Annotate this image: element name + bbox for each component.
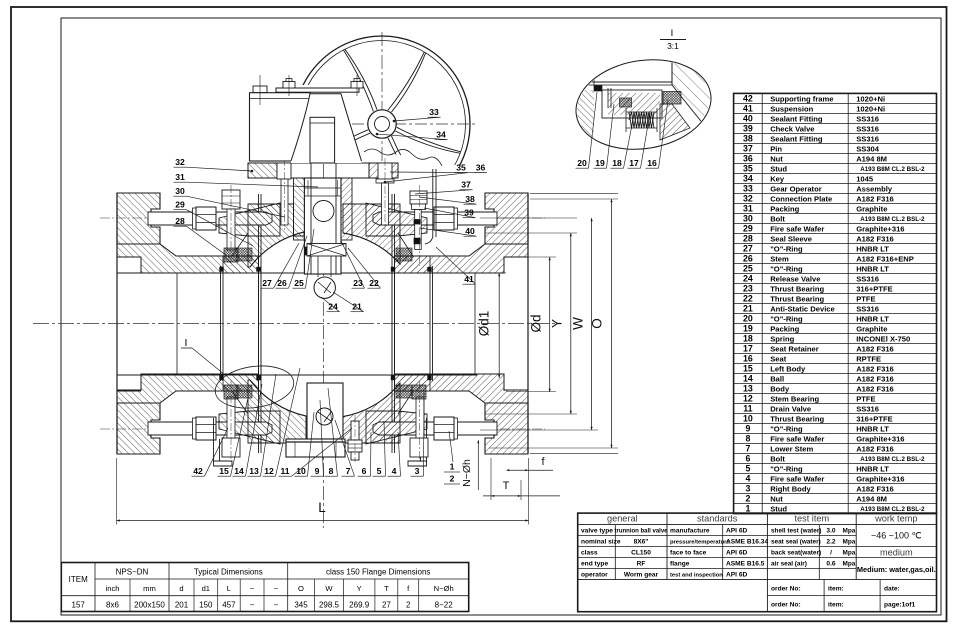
svg-text:36: 36	[743, 154, 753, 164]
svg-text:ITEM: ITEM	[69, 575, 88, 584]
svg-text:16: 16	[743, 354, 753, 364]
svg-text:26: 26	[743, 254, 753, 264]
svg-text:Mpa: Mpa	[843, 538, 856, 545]
svg-text:17: 17	[743, 344, 753, 354]
left hub transition top	[232, 233, 248, 256]
right seat retainer top section	[395, 256, 431, 273]
left flange top section	[117, 193, 160, 244]
detail left hatch	[568, 90, 594, 145]
svg-text:SS316: SS316	[856, 114, 879, 123]
svg-text:Y: Y	[357, 584, 362, 593]
right seat retainer bottom section	[395, 375, 431, 391]
svg-text:30: 30	[743, 214, 753, 224]
svg-text:HNBR LT: HNBR LT	[856, 264, 889, 273]
handwheel spoke lower-right	[391, 136, 425, 195]
svg-text:−: −	[274, 584, 279, 593]
svg-text:flange: flange	[670, 560, 690, 567]
svg-text:ASME B16.34: ASME B16.34	[726, 538, 768, 545]
svg-text:3.0: 3.0	[826, 527, 835, 534]
svg-text:13: 13	[249, 466, 259, 476]
svg-text:general: general	[607, 514, 638, 524]
svg-text:1: 1	[745, 504, 750, 514]
left flange stud washer top	[193, 208, 197, 229]
svg-text:201: 201	[175, 600, 189, 609]
svg-text:inch: inch	[106, 584, 120, 593]
svg-text:298.5: 298.5	[319, 600, 340, 609]
svg-text:I: I	[671, 28, 674, 39]
svg-text:15: 15	[219, 466, 229, 476]
horizontal centerline	[33, 323, 556, 325]
right flange stud shank top	[373, 212, 497, 225]
svg-text:Release Valve: Release Valve	[770, 274, 820, 283]
svg-text:15: 15	[743, 364, 753, 374]
svg-text:Anti-Static Device: Anti-Static Device	[770, 304, 835, 313]
svg-text:test item: test item	[794, 514, 829, 524]
handwheel rim	[294, 36, 470, 212]
dimension O line	[611, 199, 613, 448]
svg-text:Packing: Packing	[770, 204, 799, 213]
svg-text:Right Body: Right Body	[770, 485, 811, 494]
svg-text:40: 40	[743, 114, 753, 124]
svg-text:10: 10	[743, 414, 753, 424]
bolt left bottom shank	[227, 397, 235, 438]
svg-text:27: 27	[743, 244, 753, 254]
left flange stud washer bottom	[193, 418, 197, 439]
svg-text:test and inspection: test and inspection	[670, 572, 723, 578]
svg-text:Stem: Stem	[770, 254, 789, 263]
svg-text:33: 33	[429, 107, 439, 117]
svg-text:6: 6	[745, 454, 750, 464]
svg-text:Medium: water,gas,oil.: Medium: water,gas,oil.	[857, 565, 936, 574]
svg-text:Gear Operator: Gear Operator	[770, 184, 822, 193]
detail o-ring crosshatch (19)	[620, 98, 632, 107]
svg-text:25: 25	[743, 264, 753, 274]
bore top line	[117, 272, 477, 274]
svg-text:42: 42	[193, 466, 203, 476]
svg-text:20: 20	[743, 314, 753, 324]
svg-text:26: 26	[277, 278, 287, 288]
svg-text:316+PTFE: 316+PTFE	[856, 284, 893, 293]
left weld line	[176, 273, 178, 375]
left counterbore lines	[117, 256, 141, 258]
svg-text:Key: Key	[770, 174, 785, 183]
svg-text:SS304: SS304	[856, 144, 880, 153]
svg-text:38: 38	[743, 134, 753, 144]
svg-text:0.6: 0.6	[826, 560, 835, 567]
left body bonnet flange wedge	[219, 203, 280, 236]
left flange stud nut top	[196, 207, 216, 230]
svg-text:Bolt: Bolt	[770, 214, 785, 223]
svg-text:3:1: 3:1	[667, 41, 679, 51]
svg-text:Worm gear: Worm gear	[624, 571, 659, 578]
svg-text:pressure/temperature: pressure/temperature	[670, 539, 730, 545]
svg-text:A194 8M: A194 8M	[856, 495, 887, 504]
right body neck top section	[395, 244, 529, 273]
svg-text:Suspension: Suspension	[770, 104, 813, 113]
svg-text:−: −	[250, 584, 255, 593]
svg-text:269.9: 269.9	[349, 600, 370, 609]
svg-text:10: 10	[296, 466, 306, 476]
lower trunnion block	[307, 383, 343, 439]
bolt centerline	[419, 381, 421, 462]
ball bottom-right arc	[341, 383, 400, 417]
svg-text:API 6D: API 6D	[726, 549, 747, 556]
release valve circle (21)	[314, 277, 335, 298]
svg-text:L: L	[318, 500, 326, 515]
svg-text:157: 157	[72, 600, 86, 609]
svg-text:29: 29	[175, 200, 185, 210]
svg-text:shell test (water): shell test (water)	[771, 527, 821, 534]
svg-text:HNBR LT: HNBR LT	[856, 465, 889, 474]
svg-text:Graphite+316: Graphite+316	[856, 475, 904, 484]
svg-text:Fire safe Wafer: Fire safe Wafer	[770, 475, 824, 484]
seat face seal left outer top	[220, 267, 224, 272]
svg-text:14: 14	[234, 466, 244, 476]
svg-text:Sealant Fitting: Sealant Fitting	[770, 114, 823, 123]
svg-text:SS316: SS316	[856, 274, 879, 283]
svg-text:35: 35	[743, 164, 753, 174]
right flange bolt hole centerline top	[388, 217, 545, 219]
svg-text:back seat(water): back seat(water)	[771, 549, 821, 556]
stem thrust bearing right (22)	[334, 247, 341, 255]
svg-text:Mpa: Mpa	[843, 549, 856, 556]
connection plate left section	[248, 163, 277, 178]
svg-text:25: 25	[294, 278, 304, 288]
dimension Phid line	[549, 257, 551, 392]
svg-text:42: 42	[743, 94, 753, 104]
spec table frame	[578, 513, 937, 612]
handwheel spoke upper-left	[343, 50, 373, 112]
svg-text:O: O	[298, 584, 304, 593]
svg-text:face to face: face to face	[670, 549, 707, 556]
right seat top seal	[396, 248, 412, 261]
svg-text:Ød1: Ød1	[477, 311, 492, 337]
svg-text:PTFE: PTFE	[856, 394, 875, 403]
svg-text:standards: standards	[697, 514, 738, 524]
left seat retainer top section	[223, 256, 259, 273]
svg-text:"O"-Ring: "O"-Ring	[770, 425, 803, 434]
svg-text:Drain Valve: Drain Valve	[770, 405, 811, 414]
BOM table frame	[734, 93, 937, 513]
right seal ring lower	[414, 238, 420, 244]
svg-text:HNBR LT: HNBR LT	[856, 425, 889, 434]
svg-text:trunnion ball valve: trunnion ball valve	[614, 528, 668, 534]
left body neck bottom section	[117, 374, 259, 403]
svg-text:200x150: 200x150	[134, 600, 165, 609]
svg-text:Stud: Stud	[770, 505, 787, 514]
bolt centerline	[419, 185, 421, 266]
svg-text:4: 4	[392, 466, 397, 476]
svg-text:29: 29	[743, 224, 753, 234]
right seat bottom seal	[396, 385, 412, 398]
svg-text:order No:: order No:	[771, 585, 801, 592]
svg-text:date:: date:	[884, 585, 900, 592]
svg-text:316+PTFE: 316+PTFE	[856, 415, 893, 424]
svg-text:d: d	[179, 584, 183, 593]
svg-text:Left Body: Left Body	[770, 364, 806, 373]
svg-text:1020+Ni: 1020+Ni	[856, 104, 885, 113]
svg-text:Connection Plate: Connection Plate	[770, 194, 832, 203]
stem packing lines	[304, 187, 341, 189]
connection plate right section	[369, 163, 398, 178]
bolt right head	[410, 191, 427, 204]
left seat bottom seal	[236, 385, 252, 398]
svg-text:Thrust Bearing: Thrust Bearing	[770, 294, 824, 303]
seat face seal right inner bottom	[391, 376, 395, 381]
detail seat block	[602, 90, 662, 118]
dimension T	[490, 458, 492, 500]
svg-text:−: −	[250, 600, 255, 609]
left seat retainer bottom section	[223, 375, 259, 391]
center body upper-right section	[343, 204, 400, 264]
release valve body box (24)	[307, 244, 346, 257]
svg-text:13: 13	[743, 384, 753, 394]
svg-text:37: 37	[743, 144, 753, 154]
svg-text:19: 19	[595, 158, 605, 168]
svg-text:A182 F316+ENP: A182 F316+ENP	[856, 254, 914, 263]
stem thrust bearing left (23)	[304, 247, 311, 255]
svg-text:8−22: 8−22	[435, 600, 454, 609]
left flange face line	[116, 193, 118, 454]
gear operator top plate	[276, 88, 359, 92]
left flange bottom section	[117, 403, 160, 454]
detail anti-static square (20)	[594, 86, 602, 92]
svg-text:API 6D: API 6D	[726, 571, 747, 578]
svg-text:order No:: order No:	[771, 602, 801, 609]
stem block outline	[304, 178, 341, 274]
svg-text:T: T	[384, 584, 389, 593]
svg-text:A193 B8M CL.2 BSL-2: A193 B8M CL.2 BSL-2	[860, 456, 925, 463]
right flange bottom section	[485, 403, 528, 454]
left seat inner edge	[258, 266, 260, 381]
seat face seal left inner top	[257, 267, 261, 272]
svg-text:A193 B8M CL.2 BSL-2: A193 B8M CL.2 BSL-2	[860, 166, 925, 173]
svg-text:19: 19	[743, 324, 753, 334]
extension lines right	[506, 256, 556, 258]
bolt right washer	[412, 204, 426, 210]
svg-text:Assembly: Assembly	[856, 184, 893, 193]
svg-text:L: L	[227, 584, 231, 593]
svg-text:7: 7	[745, 444, 750, 454]
svg-text:Pin: Pin	[770, 144, 782, 153]
svg-text:"O"-Ring: "O"-Ring	[770, 465, 803, 474]
svg-text:mm: mm	[143, 584, 156, 593]
svg-text:−: −	[274, 600, 279, 609]
svg-text:457: 457	[222, 600, 236, 609]
svg-text:A182 F316: A182 F316	[856, 374, 894, 383]
svg-text:Ød: Ød	[529, 314, 544, 332]
right flange face line	[527, 193, 529, 454]
svg-text:Packing: Packing	[770, 324, 799, 333]
ball bottom-left arc	[250, 380, 306, 416]
left body lower flange wedge	[219, 411, 280, 444]
handwheel break line	[364, 149, 442, 166]
svg-text:A182 F316: A182 F316	[856, 485, 894, 494]
right body joint line pair	[391, 194, 393, 453]
center body lower-left section	[248, 380, 306, 443]
svg-text:31: 31	[175, 172, 185, 182]
svg-text:6: 6	[362, 466, 367, 476]
svg-text:Graphite+316: Graphite+316	[856, 435, 904, 444]
detail seat seal crosshatch	[663, 92, 681, 105]
ITEM table frame	[61, 563, 468, 612]
svg-text:8X6": 8X6"	[634, 538, 649, 545]
svg-text:Stud: Stud	[770, 164, 787, 173]
svg-text:1: 1	[450, 462, 455, 472]
svg-text:22: 22	[369, 278, 379, 288]
svg-text:Seat: Seat	[770, 354, 787, 363]
stem top column	[310, 117, 335, 163]
svg-text:ASME B16.5: ASME B16.5	[726, 560, 765, 567]
svg-text:Typical Dimensions: Typical Dimensions	[194, 568, 263, 577]
svg-text:9: 9	[315, 466, 320, 476]
svg-text:22: 22	[743, 294, 753, 304]
plate corner bolt left	[253, 86, 267, 93]
right flange stud washer bottom	[454, 418, 458, 439]
bolt 30 left shank	[227, 209, 235, 250]
bolt centerline	[354, 415, 356, 462]
right body lower flange wedge	[366, 411, 427, 444]
right seat outer edge	[429, 266, 431, 381]
gland bolt left head	[277, 163, 291, 179]
svg-text:A193 B8M CL.2 BSL-2: A193 B8M CL.2 BSL-2	[860, 506, 925, 513]
right flange stud nut top	[434, 207, 454, 230]
gland bolt right head	[378, 163, 392, 179]
bore bottom line	[117, 374, 477, 376]
right hub transition bottom	[398, 391, 413, 414]
lower stem pin circle	[316, 408, 333, 425]
left flange bolt hole centerline bottom	[100, 428, 258, 430]
svg-text:−46 ~100 ℃: −46 ~100 ℃	[871, 531, 922, 541]
svg-text:Fire safe Wafer: Fire safe Wafer	[770, 435, 824, 444]
bonnet wall left	[294, 178, 305, 240]
svg-text:/: /	[830, 549, 832, 556]
svg-text:2: 2	[406, 600, 411, 609]
svg-text:end type: end type	[581, 560, 608, 567]
right seat inner edge	[391, 266, 393, 381]
bolt 30 left head	[222, 190, 240, 209]
svg-text:12: 12	[264, 466, 274, 476]
gear housing box	[250, 93, 311, 161]
svg-text:manufacture: manufacture	[670, 527, 710, 534]
ball top-left arc	[250, 232, 304, 267]
detail body corner hatch	[672, 60, 712, 135]
right flange bolt hole centerline bottom	[388, 428, 545, 430]
svg-text:A182 F316: A182 F316	[856, 344, 894, 353]
detail bore lines	[576, 81, 672, 83]
svg-text:HNBR LT: HNBR LT	[856, 244, 889, 253]
svg-text:API 6D: API 6D	[726, 527, 747, 534]
svg-text:W: W	[325, 584, 333, 593]
dimension L	[116, 458, 118, 525]
handwheel hub horizontal centerline	[352, 123, 478, 125]
svg-text:work temp: work temp	[874, 514, 917, 524]
svg-text:RPTFE: RPTFE	[856, 354, 881, 363]
svg-text:31: 31	[743, 204, 753, 214]
vertical stem centerline	[323, 95, 325, 528]
svg-text:345: 345	[294, 600, 308, 609]
svg-text:Body: Body	[770, 384, 790, 393]
dimension N-Oh	[477, 440, 479, 490]
dimension Phid1 line	[498, 273, 500, 378]
svg-text:"O"-Ring: "O"-Ring	[770, 244, 803, 253]
bolt right bottom shank	[416, 397, 424, 438]
bolt centerline	[230, 185, 232, 266]
svg-text:RF: RF	[637, 560, 646, 567]
right flange stud nut bottom	[434, 417, 454, 440]
center body lower-right section	[341, 383, 400, 443]
svg-text:A182 F316: A182 F316	[856, 445, 894, 454]
svg-text:air seal (air): air seal (air)	[771, 560, 807, 567]
svg-text:W: W	[571, 317, 586, 330]
svg-text:T: T	[503, 480, 510, 492]
bolt right shank	[415, 210, 422, 250]
left body joint line pair	[258, 194, 260, 453]
seat face seal right outer top	[428, 267, 432, 272]
svg-text:class: class	[581, 549, 598, 556]
svg-text:NPS−DN: NPS−DN	[116, 568, 149, 577]
handwheel vertical centerline	[381, 32, 383, 218]
svg-text:18: 18	[612, 158, 622, 168]
svg-text:11: 11	[280, 466, 289, 476]
svg-text:Sealant Fitting: Sealant Fitting	[770, 134, 823, 143]
svg-text:23: 23	[743, 284, 753, 294]
svg-text:1020+Ni: 1020+Ni	[856, 94, 885, 103]
svg-text:Lower Stem: Lower Stem	[770, 445, 813, 454]
svg-text:Stem Bearing: Stem Bearing	[770, 394, 819, 403]
detail bubble ellipse	[569, 50, 717, 158]
svg-text:1045: 1045	[856, 174, 874, 183]
svg-text:5: 5	[377, 466, 382, 476]
svg-text:O: O	[590, 318, 605, 329]
svg-text:16: 16	[647, 158, 657, 168]
gland bolt right shank	[382, 183, 389, 225]
left flange stud shank bottom	[148, 422, 272, 435]
svg-text:N−Øh: N−Øh	[434, 584, 454, 593]
left seat top seal	[236, 248, 252, 261]
handwheel spoke lower-left	[310, 133, 370, 166]
bolt left bottom head	[222, 438, 240, 457]
svg-text:Graphite: Graphite	[856, 324, 887, 333]
svg-text:Thrust Bearing: Thrust Bearing	[770, 284, 824, 293]
svg-text:SS316: SS316	[856, 134, 879, 143]
svg-text:17: 17	[629, 158, 639, 168]
svg-text:9: 9	[745, 424, 750, 434]
svg-text:A182 F316: A182 F316	[856, 194, 894, 203]
center body upper-left section	[248, 204, 304, 267]
suspension rod (41)	[432, 169, 434, 237]
bonnet wall right	[341, 178, 352, 240]
svg-text:27: 27	[262, 278, 272, 288]
svg-text:8x6: 8x6	[106, 600, 119, 609]
svg-text:Ball: Ball	[770, 374, 784, 383]
svg-text:PTFE: PTFE	[856, 294, 875, 303]
svg-text:Thrust Bearing: Thrust Bearing	[770, 415, 824, 424]
svg-text:HNBR LT: HNBR LT	[856, 314, 889, 323]
seat face seal left outer bottom	[220, 376, 224, 381]
gland bolt left shank	[281, 179, 288, 225]
svg-text:Seat Retainer: Seat Retainer	[770, 344, 819, 353]
svg-text:2: 2	[745, 494, 750, 504]
supporting frame bracket left (42)	[213, 418, 215, 461]
left flange stud nut bottom	[196, 417, 216, 440]
yoke trapezoid	[291, 94, 362, 163]
svg-text:Supporting frame: Supporting frame	[770, 94, 833, 103]
detail retainer lines	[607, 88, 609, 108]
svg-text:20: 20	[577, 158, 587, 168]
svg-text:2: 2	[450, 474, 455, 484]
svg-text:32: 32	[743, 194, 753, 204]
